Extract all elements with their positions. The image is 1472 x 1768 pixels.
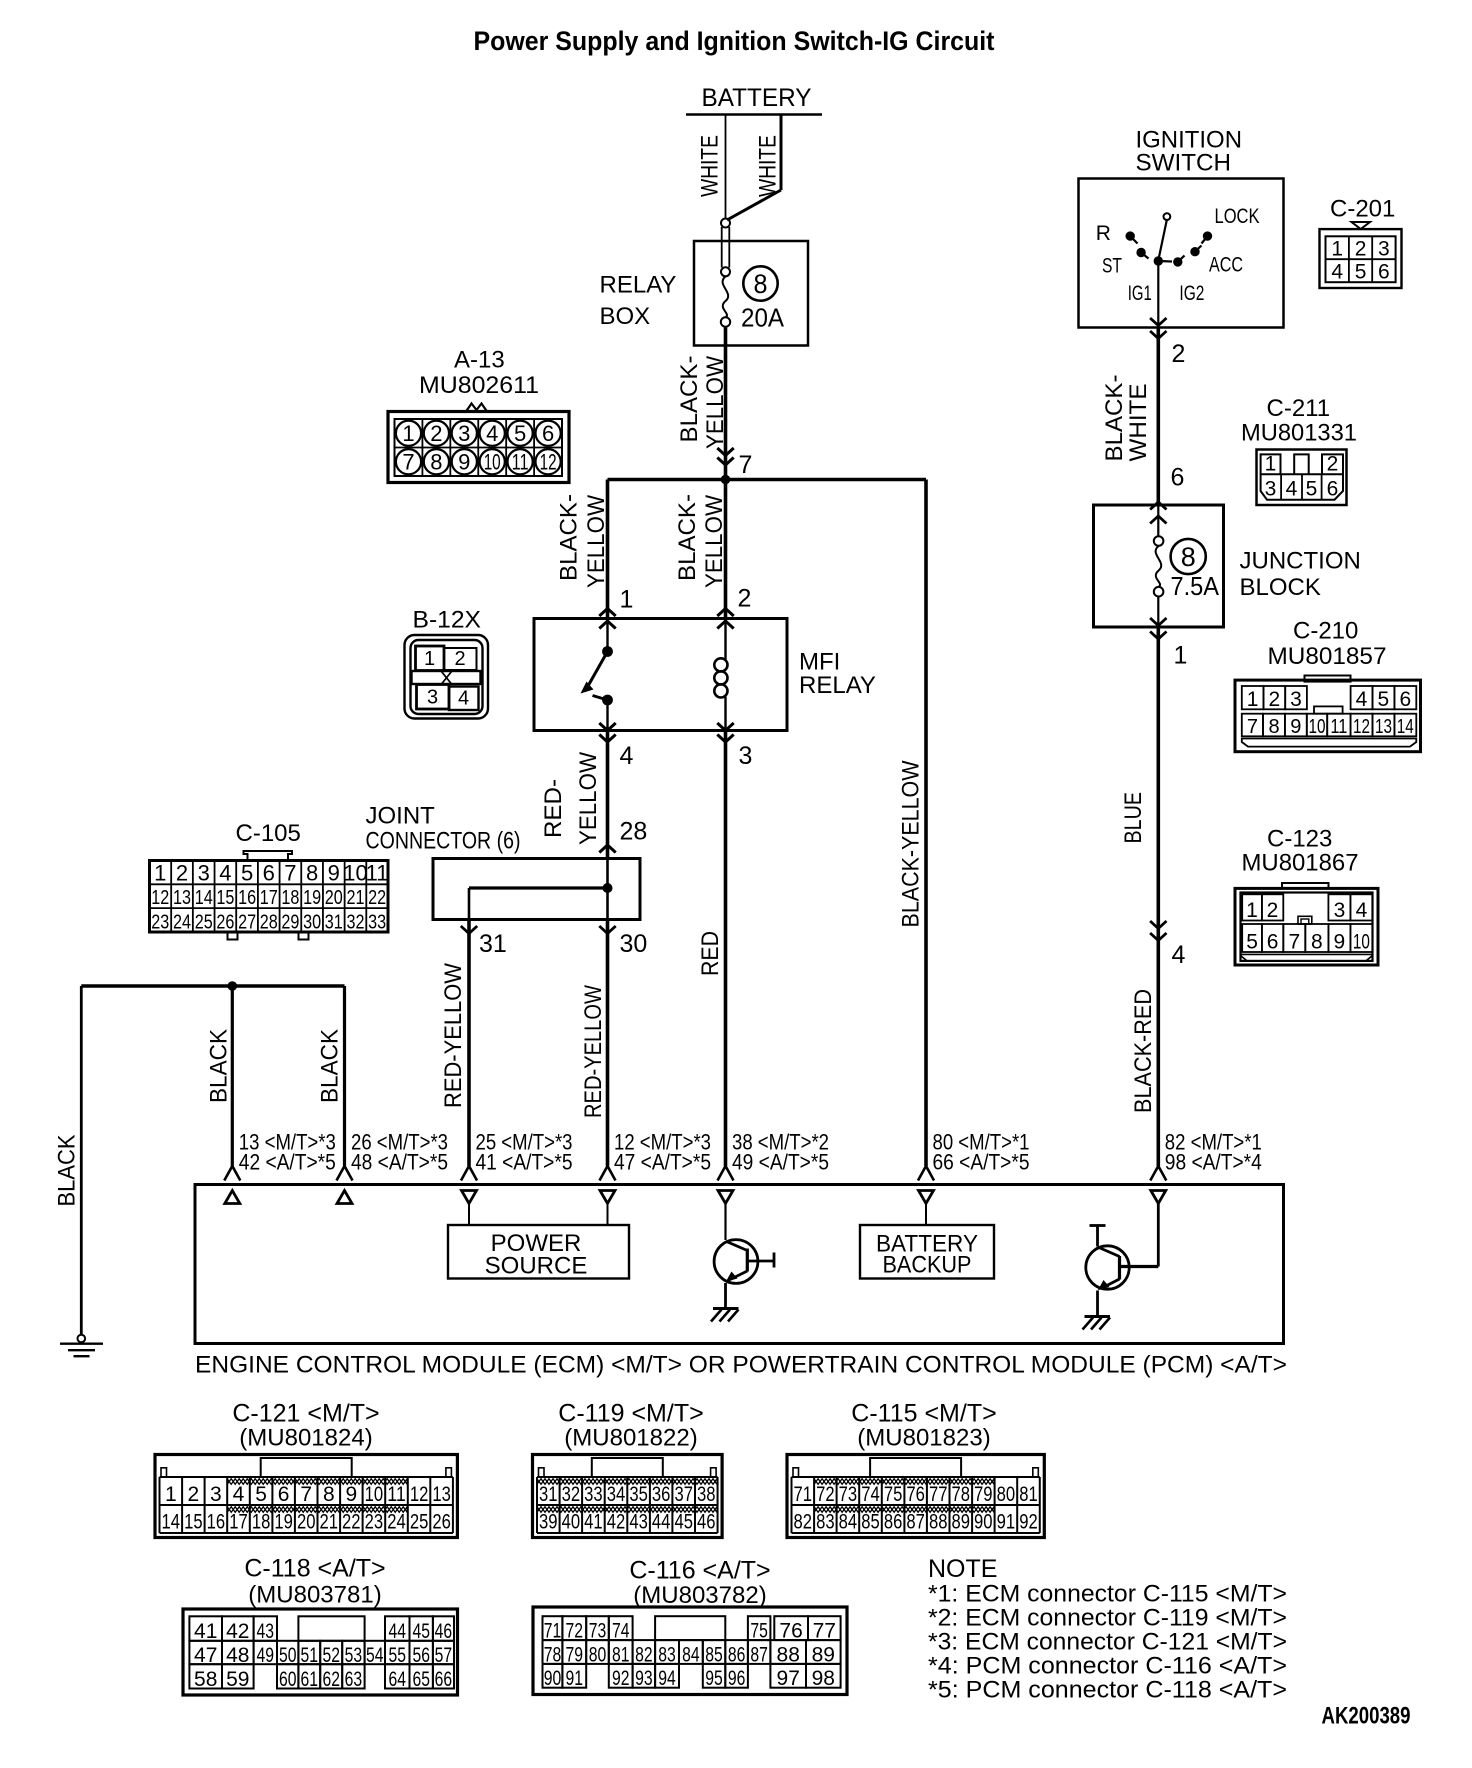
svg-text:2: 2	[454, 648, 465, 670]
wire label BLACK-YELLOW (pin 1 branch)	[556, 494, 611, 588]
svg-text:11: 11	[512, 450, 529, 475]
ground (Q2 emitter)	[1083, 1317, 1111, 1330]
wire label BLACK-YELLOW (pin 2 branch)	[674, 494, 728, 588]
svg-text:5: 5	[241, 861, 253, 886]
svg-text:IG2: IG2	[1179, 282, 1204, 305]
svg-text:(MU803782): (MU803782)	[633, 1582, 766, 1609]
svg-text:8: 8	[754, 269, 768, 299]
svg-text:22: 22	[342, 1511, 361, 1534]
arrow into joint connector	[599, 845, 615, 853]
svg-text:65: 65	[412, 1668, 430, 1691]
svg-text:7.5A: 7.5A	[1171, 571, 1220, 601]
svg-text:82: 82	[794, 1511, 813, 1534]
svg-text:91: 91	[997, 1511, 1016, 1534]
svg-text:6: 6	[1267, 931, 1279, 954]
svg-text:42 <A/T>*5: 42 <A/T>*5	[239, 1150, 336, 1175]
svg-text:87: 87	[750, 1644, 768, 1667]
svg-text:4: 4	[458, 688, 469, 710]
svg-text:97: 97	[777, 1667, 800, 1690]
terminal triangle pin 12/47	[600, 1191, 615, 1204]
svg-text:1: 1	[1247, 688, 1259, 711]
svg-text:2: 2	[176, 861, 188, 886]
connector C-121 <M/T> (MU801824)	[155, 1400, 457, 1538]
svg-text:2: 2	[738, 585, 752, 613]
svg-text:3: 3	[427, 687, 438, 709]
wire end flare at ECM x=232.3	[224, 1166, 240, 1181]
svg-text:BLACK-: BLACK-	[556, 494, 583, 581]
svg-text:78: 78	[952, 1483, 971, 1506]
pin 2 label	[738, 585, 752, 613]
drawing number AK200389	[1322, 1703, 1411, 1730]
connector C-115 <M/T> (MU801823)	[787, 1400, 1044, 1538]
svg-text:11: 11	[366, 861, 389, 886]
svg-text:30: 30	[620, 930, 648, 958]
svg-text:3: 3	[1334, 899, 1346, 922]
wire label BLACK-YELLOW (top)	[676, 356, 729, 450]
svg-text:86: 86	[884, 1511, 903, 1534]
svg-text:C-123: C-123	[1267, 826, 1332, 853]
svg-text:49 <A/T>*5: 49 <A/T>*5	[732, 1150, 829, 1175]
svg-text:9: 9	[458, 450, 470, 475]
wire fuse to junction node 7 BLACK-YELLOW	[724, 327, 728, 480]
svg-text:*3: ECM connector C-121 <M/T>: *3: ECM connector C-121 <M/T>	[928, 1629, 1287, 1656]
svg-text:42: 42	[226, 1620, 249, 1643]
svg-text:1: 1	[424, 648, 435, 670]
svg-text:19: 19	[303, 887, 321, 909]
svg-text:5: 5	[255, 1483, 267, 1506]
svg-text:13: 13	[432, 1483, 451, 1506]
svg-text:C-210: C-210	[1293, 618, 1358, 645]
svg-text:BLACK-: BLACK-	[674, 494, 701, 581]
wire battery to fusible link (thin)	[725, 115, 727, 220]
svg-text:32: 32	[347, 911, 365, 933]
svg-text:10: 10	[365, 1483, 384, 1506]
svg-text:SOURCE: SOURCE	[485, 1253, 588, 1280]
svg-text:BLACK-RED: BLACK-RED	[1130, 989, 1157, 1113]
wire label BLACK (ground leg)	[54, 1135, 81, 1207]
svg-text:61: 61	[301, 1668, 319, 1691]
svg-text:24: 24	[173, 911, 191, 933]
svg-text:MU801867: MU801867	[1242, 850, 1359, 877]
svg-text:Power Supply and Ignition Swit: Power Supply and Ignition Switch-IG Circ…	[474, 26, 995, 56]
svg-text:7: 7	[402, 450, 414, 475]
svg-text:5: 5	[1306, 478, 1318, 501]
svg-text:LOCK: LOCK	[1215, 205, 1260, 228]
svg-text:80: 80	[589, 1644, 607, 1667]
ground (Q1 emitter)	[711, 1309, 739, 1322]
svg-text:9: 9	[345, 1483, 357, 1506]
svg-text:3: 3	[198, 861, 210, 886]
svg-text:RED-YELLOW: RED-YELLOW	[440, 963, 467, 1108]
wire junction to relay pin 1	[606, 480, 610, 619]
svg-text:7: 7	[300, 1483, 312, 1506]
arrows mid wire at C-123 pin 4	[1150, 921, 1166, 941]
wire relay pin 4 to joint connector RED-YELLOW	[606, 731, 610, 859]
ignition switch rotary contacts	[1126, 213, 1213, 266]
wire end flare at ECM x=926.0	[918, 1166, 934, 1181]
svg-text:18: 18	[252, 1511, 271, 1534]
svg-text:IG1: IG1	[1128, 282, 1152, 305]
svg-text:9: 9	[328, 861, 340, 886]
svg-text:6: 6	[542, 421, 554, 446]
svg-text:C-119 <M/T>: C-119 <M/T>	[558, 1400, 703, 1428]
svg-text:89: 89	[952, 1511, 971, 1534]
svg-text:RED-: RED-	[540, 779, 567, 838]
svg-text:75: 75	[884, 1483, 903, 1506]
svg-text:74: 74	[612, 1620, 630, 1643]
svg-text:BATTERY: BATTERY	[702, 84, 812, 112]
svg-text:41: 41	[194, 1620, 217, 1643]
svg-text:20: 20	[297, 1511, 316, 1534]
svg-text:17: 17	[229, 1511, 248, 1534]
svg-text:90: 90	[974, 1511, 993, 1534]
svg-text:98: 98	[812, 1667, 835, 1690]
svg-text:15: 15	[216, 887, 234, 909]
svg-text:6: 6	[1399, 688, 1411, 711]
svg-text:45: 45	[412, 1620, 430, 1643]
svg-text:85: 85	[861, 1511, 880, 1534]
svg-text:35: 35	[629, 1483, 648, 1506]
svg-text:*2: ECM connector C-119 <M/T>: *2: ECM connector C-119 <M/T>	[928, 1605, 1287, 1632]
connector B-12X	[405, 607, 489, 719]
svg-text:ACC: ACC	[1209, 254, 1243, 277]
svg-text:32: 32	[562, 1483, 581, 1506]
fusible link	[721, 219, 730, 277]
svg-text:7: 7	[739, 451, 753, 479]
svg-text:6: 6	[1171, 464, 1185, 492]
svg-text:C-105: C-105	[236, 820, 301, 847]
svg-text:8: 8	[1268, 716, 1279, 738]
svg-text:9: 9	[1334, 931, 1346, 954]
svg-text:(MU801822): (MU801822)	[564, 1425, 697, 1452]
joint connector (6) box	[366, 803, 641, 920]
svg-text:2: 2	[1267, 899, 1279, 922]
svg-text:2: 2	[1355, 238, 1367, 261]
junction block box	[1094, 505, 1361, 627]
svg-text:77: 77	[929, 1483, 948, 1506]
svg-text:14: 14	[162, 1511, 181, 1534]
svg-text:YELLOW: YELLOW	[583, 495, 610, 588]
svg-text:1: 1	[1246, 899, 1258, 922]
svg-text:C-116 <A/T>: C-116 <A/T>	[629, 1557, 770, 1585]
svg-text:MU802611: MU802611	[419, 372, 539, 399]
svg-text:63: 63	[345, 1668, 363, 1691]
svg-text:11: 11	[1330, 716, 1347, 738]
svg-text:26: 26	[432, 1511, 451, 1534]
ECM pin label 12/47	[614, 1130, 711, 1175]
svg-text:1: 1	[620, 586, 634, 614]
wire end flare at ECM x=1158.3	[1150, 1166, 1166, 1181]
svg-text:BLACK: BLACK	[206, 1029, 233, 1103]
connector C-211 MU801331	[1241, 395, 1357, 505]
arrows out of junction block	[1150, 618, 1166, 639]
svg-text:BOX: BOX	[600, 303, 651, 330]
svg-text:BLACK: BLACK	[54, 1135, 81, 1207]
svg-text:94: 94	[658, 1667, 676, 1690]
wire rail to ECM pin 26/48 BLACK	[343, 986, 346, 1166]
svg-text:2: 2	[188, 1483, 200, 1506]
wire label WHITE (left)	[697, 135, 724, 197]
ECM pin label 82/98	[1165, 1130, 1262, 1175]
svg-text:3: 3	[1378, 238, 1390, 261]
svg-text:WHITE: WHITE	[755, 135, 782, 197]
ECM pin label 38/49	[732, 1130, 829, 1175]
svg-text:4: 4	[620, 742, 634, 770]
svg-text:BACKUP: BACKUP	[883, 1252, 972, 1279]
svg-text:YELLOW: YELLOW	[701, 495, 728, 588]
svg-text:3: 3	[1265, 478, 1277, 501]
wire end flare at ECM x=725.5	[718, 1166, 734, 1181]
wire label BLACK (pin 13/42)	[206, 1029, 233, 1103]
svg-text:3: 3	[739, 742, 753, 770]
wire end flare at ECM x=469.0	[461, 1166, 477, 1181]
svg-text:87: 87	[906, 1511, 925, 1534]
fuse 8 7.5A in junction block	[1154, 505, 1220, 627]
ignition switch position labels	[1096, 205, 1260, 305]
svg-text:10: 10	[484, 450, 501, 475]
POWER SOURCE block	[448, 1204, 629, 1280]
svg-text:74: 74	[861, 1483, 880, 1506]
ECM pin label 80/66	[933, 1130, 1030, 1175]
svg-text:30: 30	[303, 911, 321, 933]
wire joint pin 31 to ECM RED-YELLOW	[467, 920, 471, 1167]
svg-text:YELLOW: YELLOW	[702, 356, 729, 449]
svg-text:RELAY: RELAY	[799, 672, 876, 699]
svg-text:72: 72	[566, 1620, 584, 1643]
svg-text:71: 71	[544, 1620, 562, 1643]
svg-text:14: 14	[195, 887, 213, 909]
svg-text:RELAY: RELAY	[600, 272, 677, 299]
svg-text:C-201: C-201	[1330, 196, 1395, 223]
svg-text:46: 46	[435, 1620, 453, 1643]
wire ignition switch IG out	[1150, 261, 1166, 505]
svg-text:BLACK-: BLACK-	[676, 356, 703, 443]
svg-text:92: 92	[1019, 1511, 1038, 1534]
svg-text:RED: RED	[697, 931, 724, 976]
svg-text:90: 90	[544, 1667, 562, 1690]
svg-text:4: 4	[1286, 478, 1298, 501]
svg-text:58: 58	[194, 1668, 217, 1691]
svg-text:31: 31	[479, 930, 507, 958]
wire label BLACK-RED	[1130, 989, 1157, 1113]
wire label BLACK-WHITE	[1101, 375, 1152, 462]
wire joint pin 30 to ECM RED-YELLOW	[606, 920, 610, 1167]
svg-text:16: 16	[238, 887, 256, 909]
svg-text:3: 3	[458, 421, 470, 446]
svg-text:*4: PCM connector C-116 <A/T>: *4: PCM connector C-116 <A/T>	[928, 1653, 1287, 1680]
svg-text:C-115 <M/T>: C-115 <M/T>	[851, 1400, 996, 1428]
terminal triangle pin 82/98	[1151, 1191, 1166, 1204]
arrow out pin 31	[461, 926, 477, 934]
connector A-13 MU802611	[388, 347, 569, 483]
svg-text:22: 22	[368, 887, 386, 909]
svg-text:CONNECTOR (6): CONNECTOR (6)	[366, 828, 521, 855]
svg-text:25: 25	[195, 911, 213, 933]
svg-text:ENGINE CONTROL MODULE (ECM) <M: ENGINE CONTROL MODULE (ECM) <M/T> OR POW…	[195, 1352, 1287, 1379]
svg-text:BLUE: BLUE	[1120, 792, 1147, 844]
svg-text:81: 81	[1019, 1483, 1038, 1506]
wire battery right drop WHITE	[727, 115, 781, 221]
pin 3 label	[739, 742, 753, 770]
svg-text:RED-YELLOW: RED-YELLOW	[580, 985, 607, 1118]
node 7 junction line	[608, 475, 927, 485]
svg-text:12: 12	[540, 450, 557, 475]
svg-text:*5: PCM connector C-118 <A/T>: *5: PCM connector C-118 <A/T>	[928, 1677, 1287, 1704]
terminal triangle pin 25/41	[462, 1191, 477, 1204]
wire label RED-YELLOW (pin 30)	[580, 985, 607, 1118]
arrows into junction block	[1150, 502, 1166, 524]
connector C-105	[150, 820, 389, 940]
svg-text:19: 19	[274, 1511, 293, 1534]
svg-text:NOTE: NOTE	[928, 1555, 997, 1583]
svg-text:20: 20	[325, 887, 343, 909]
svg-text:6: 6	[263, 861, 275, 886]
svg-text:72: 72	[816, 1483, 835, 1506]
svg-text:73: 73	[839, 1483, 858, 1506]
svg-text:98 <A/T>*4: 98 <A/T>*4	[1165, 1150, 1262, 1175]
pin 1 label	[620, 586, 634, 614]
svg-text:23: 23	[151, 911, 169, 933]
svg-text:42: 42	[607, 1511, 626, 1534]
connector C-210 MU801857	[1235, 618, 1421, 752]
svg-text:1: 1	[154, 861, 166, 886]
svg-text:ST: ST	[1102, 255, 1122, 278]
ignition switch box	[1079, 127, 1284, 328]
earth ground symbol	[60, 1335, 103, 1357]
svg-text:59: 59	[226, 1668, 249, 1691]
pin 7 label	[739, 451, 753, 479]
svg-text:4: 4	[486, 421, 498, 446]
svg-text:3: 3	[1290, 688, 1302, 711]
svg-text:75: 75	[750, 1620, 768, 1643]
svg-text:4: 4	[1172, 941, 1186, 969]
wire end flare at ECM x=607.5	[600, 1166, 616, 1181]
svg-text:R: R	[1096, 222, 1111, 245]
arrow out pin 30	[599, 926, 615, 934]
wire label RED-YELLOW (pin 31)	[440, 963, 467, 1108]
ECM label	[195, 1352, 1287, 1379]
svg-text:21: 21	[320, 1511, 339, 1534]
svg-text:8: 8	[306, 861, 318, 886]
svg-text:7: 7	[1247, 716, 1258, 738]
svg-text:17: 17	[260, 887, 278, 909]
svg-text:BLACK-YELLOW: BLACK-YELLOW	[898, 760, 925, 927]
svg-text:71: 71	[794, 1483, 813, 1506]
svg-text:26: 26	[216, 911, 234, 933]
fuse 8 20A in relay box	[721, 266, 785, 332]
svg-text:1: 1	[1331, 238, 1343, 261]
svg-text:66: 66	[435, 1668, 453, 1691]
wire relay pin 3 to ECM RED	[724, 731, 728, 1167]
wire label RED	[697, 931, 724, 976]
relay coil	[714, 619, 727, 731]
svg-text:28: 28	[260, 911, 278, 933]
pin 2 label (ignition)	[1172, 340, 1186, 368]
svg-text:18: 18	[281, 887, 299, 909]
svg-text:77: 77	[813, 1620, 836, 1643]
svg-text:11: 11	[387, 1483, 406, 1506]
svg-text:8: 8	[1311, 931, 1323, 954]
svg-text:27: 27	[238, 911, 256, 933]
svg-text:MU801857: MU801857	[1268, 643, 1387, 670]
connector C-123 MU801867	[1235, 826, 1378, 966]
ECM pin label 26/48	[351, 1130, 448, 1175]
NOTE text block	[928, 1555, 1287, 1704]
wire label WHITE (right)	[755, 135, 782, 197]
svg-text:2: 2	[1327, 453, 1339, 476]
svg-text:31: 31	[539, 1483, 558, 1506]
joint connector internal bus	[469, 859, 613, 920]
svg-text:44: 44	[652, 1511, 671, 1534]
svg-text:66 <A/T>*5: 66 <A/T>*5	[933, 1150, 1030, 1175]
svg-text:36: 36	[652, 1483, 671, 1506]
svg-text:12: 12	[151, 887, 169, 909]
svg-text:1: 1	[1265, 453, 1277, 476]
svg-text:79: 79	[974, 1483, 993, 1506]
svg-text:6: 6	[1327, 478, 1339, 501]
svg-text:4: 4	[1356, 899, 1368, 922]
svg-text:4: 4	[233, 1483, 245, 1506]
svg-text:49: 49	[257, 1644, 275, 1667]
wire label BLACK (pin 26/48)	[317, 1029, 344, 1103]
svg-text:1: 1	[402, 421, 414, 446]
svg-text:15: 15	[184, 1511, 203, 1534]
svg-text:21: 21	[347, 887, 365, 909]
svg-text:2: 2	[430, 421, 442, 446]
svg-text:64: 64	[388, 1668, 406, 1691]
svg-text:8: 8	[1181, 542, 1196, 572]
svg-text:3: 3	[210, 1483, 222, 1506]
svg-text:WHITE: WHITE	[1125, 384, 1152, 462]
svg-text:20A: 20A	[741, 303, 785, 333]
svg-text:5: 5	[1378, 688, 1390, 711]
svg-text:54: 54	[366, 1644, 384, 1667]
arrows into MFI relay pin 1	[599, 609, 615, 629]
svg-text:10: 10	[1353, 931, 1370, 954]
svg-text:10: 10	[343, 861, 367, 886]
arrow down to node 7	[717, 448, 733, 465]
terminal triangle pin 13/42	[225, 1191, 240, 1204]
terminal triangle pin 80/66	[919, 1191, 934, 1204]
svg-text:43: 43	[629, 1511, 648, 1534]
pin 28 label	[620, 818, 648, 846]
svg-text:C-118 <A/T>: C-118 <A/T>	[244, 1555, 385, 1583]
pin 4 label (C-123)	[1172, 941, 1186, 969]
svg-text:33: 33	[368, 911, 386, 933]
svg-text:76: 76	[779, 1620, 802, 1643]
svg-text:B-12X: B-12X	[413, 607, 482, 634]
MFI relay box	[534, 619, 876, 731]
wire label BLUE	[1120, 792, 1147, 844]
svg-text:44: 44	[388, 1620, 406, 1643]
arrows out of relay pin 3	[717, 723, 733, 742]
svg-text:BLACK-: BLACK-	[1101, 375, 1128, 462]
arrows out of relay pin 4	[599, 723, 615, 742]
svg-text:WHITE: WHITE	[697, 135, 724, 197]
transistor Q1 (pin 38/49)	[714, 1204, 774, 1308]
svg-text:41: 41	[584, 1511, 603, 1534]
svg-text:24: 24	[387, 1511, 406, 1534]
pin 1 label (junction block)	[1174, 642, 1188, 670]
svg-text:60: 60	[279, 1668, 297, 1691]
ground rail	[81, 981, 344, 991]
svg-text:28: 28	[620, 818, 648, 846]
svg-text:JUNCTION: JUNCTION	[1240, 548, 1361, 575]
svg-text:46: 46	[697, 1511, 716, 1534]
svg-text:8: 8	[323, 1483, 335, 1506]
svg-text:38: 38	[697, 1483, 716, 1506]
relay switch contacts	[581, 619, 613, 731]
